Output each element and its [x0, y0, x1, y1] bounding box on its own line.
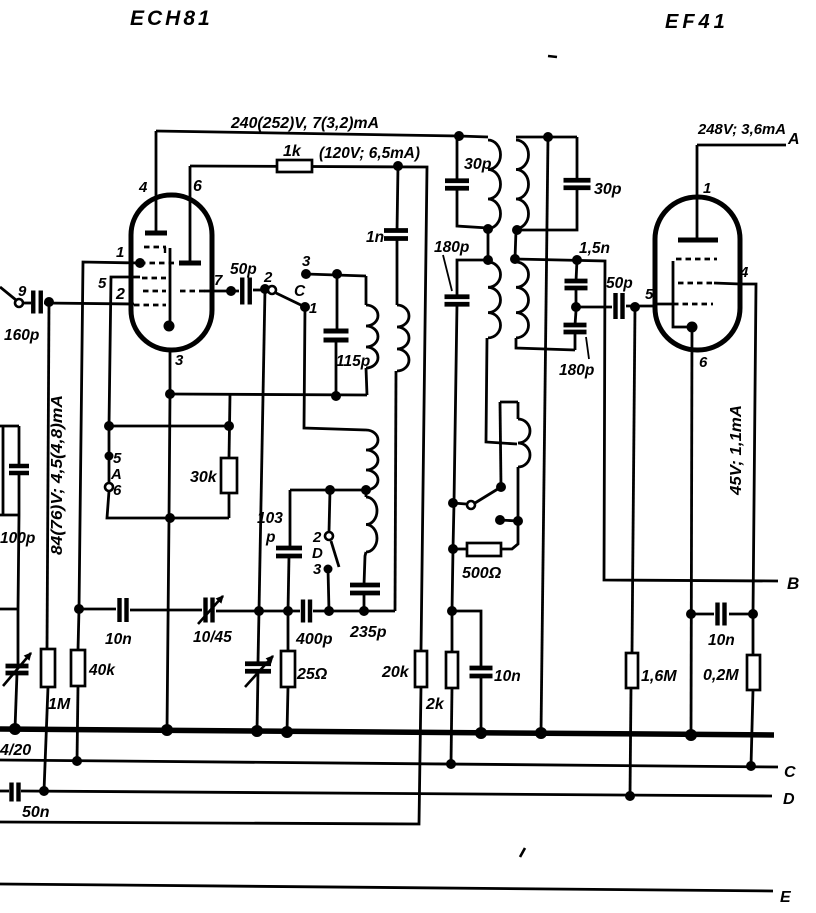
svg-text:7: 7 — [214, 272, 223, 289]
svg-text:10n: 10n — [494, 668, 521, 685]
svg-text:1k: 1k — [283, 143, 302, 160]
svg-text:30k: 30k — [190, 469, 218, 486]
svg-text:10/45: 10/45 — [193, 629, 232, 646]
svg-text:400p: 400p — [295, 631, 333, 648]
svg-text:50p: 50p — [230, 261, 257, 278]
svg-text:1,5n: 1,5n — [579, 240, 610, 257]
svg-text:3: 3 — [313, 561, 322, 578]
svg-text:6: 6 — [113, 482, 122, 499]
svg-text:2k: 2k — [425, 696, 445, 713]
svg-text:2: 2 — [312, 529, 322, 546]
svg-text:50n: 50n — [22, 804, 50, 821]
svg-text:180p: 180p — [434, 239, 469, 256]
svg-text:5: 5 — [98, 275, 107, 292]
svg-text:30p: 30p — [594, 181, 622, 198]
svg-text:1n: 1n — [366, 229, 384, 246]
svg-text:E: E — [780, 889, 792, 906]
svg-text:30p: 30p — [464, 156, 492, 173]
svg-text:10n: 10n — [105, 631, 132, 648]
svg-text:(120V; 6,5mA): (120V; 6,5mA) — [319, 145, 420, 162]
svg-text:1: 1 — [309, 300, 317, 317]
svg-text:500Ω: 500Ω — [462, 565, 502, 582]
svg-text:235p: 235p — [349, 624, 387, 641]
svg-text:A: A — [787, 131, 800, 148]
svg-text:1,6M: 1,6M — [641, 668, 677, 685]
svg-text:4/20: 4/20 — [0, 742, 31, 759]
svg-text:248V; 3,6mA: 248V; 3,6mA — [697, 121, 786, 138]
svg-text:1: 1 — [116, 244, 124, 261]
svg-text:2: 2 — [263, 269, 273, 286]
svg-text:p: p — [265, 529, 275, 546]
svg-text:0,2M: 0,2M — [703, 667, 739, 684]
svg-text:9: 9 — [18, 283, 27, 300]
svg-text:2: 2 — [115, 286, 125, 303]
svg-text:6: 6 — [699, 354, 708, 371]
svg-text:1M: 1M — [48, 696, 71, 713]
svg-text:4: 4 — [138, 179, 148, 196]
svg-text:40k: 40k — [88, 662, 116, 679]
svg-text:3: 3 — [302, 253, 311, 270]
svg-text:103: 103 — [257, 510, 283, 527]
svg-text:C: C — [784, 764, 796, 781]
svg-text:115p: 115p — [336, 353, 370, 370]
svg-text:84(76)V; 4,5(4,8)mA: 84(76)V; 4,5(4,8)mA — [49, 395, 66, 555]
svg-text:A: A — [110, 466, 122, 483]
svg-text:25Ω: 25Ω — [296, 666, 328, 683]
svg-text:ECH81: ECH81 — [130, 7, 213, 30]
svg-text:EF41: EF41 — [665, 11, 729, 33]
svg-text:160p: 160p — [4, 327, 39, 344]
svg-text:240(252)V, 7(3,2)mA: 240(252)V, 7(3,2)mA — [230, 115, 379, 132]
svg-text:180p: 180p — [559, 362, 594, 379]
svg-text:6: 6 — [193, 178, 202, 195]
svg-text:1: 1 — [703, 180, 711, 197]
svg-text:3: 3 — [175, 352, 184, 369]
svg-text:50p: 50p — [606, 275, 633, 292]
svg-text:B: B — [787, 574, 799, 593]
svg-text:5: 5 — [113, 450, 122, 467]
svg-text:D: D — [783, 791, 795, 808]
svg-text:45V; 1,1mA: 45V; 1,1mA — [728, 405, 745, 496]
svg-text:D: D — [312, 545, 323, 562]
svg-text:10n: 10n — [708, 632, 735, 649]
svg-text:C: C — [294, 283, 306, 300]
svg-text:20k: 20k — [381, 664, 410, 681]
svg-text:4: 4 — [739, 264, 749, 281]
